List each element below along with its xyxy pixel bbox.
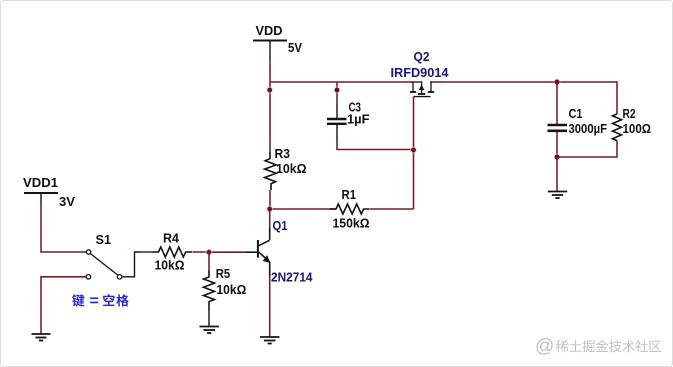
svg-text:R1: R1: [342, 188, 357, 202]
wire R2 bottom to C1 node: [557, 141, 617, 157]
svg-text:Q2: Q2: [414, 50, 430, 64]
wire S1 pole up to R4: [122, 252, 140, 277]
node junction dot C3 top: [333, 86, 340, 93]
svg-text:VDD: VDD: [256, 24, 283, 38]
wire C1 bottom: [556, 132, 558, 157]
wire R3/Q1 node to R1: [270, 208, 336, 210]
wire S1 to R4: [140, 251, 152, 253]
ground Q1 emitter: [260, 337, 279, 344]
resistor R2 100 ohm: [613, 107, 652, 141]
capacitor C3 1uF: [327, 101, 370, 141]
resistor R5 10k: [204, 267, 247, 311]
wire C3 top lead: [336, 82, 338, 103]
node junction dot C1 bottom: [553, 153, 560, 160]
svg-text:R5: R5: [216, 267, 231, 281]
switch S1 SPDT: [86, 233, 122, 279]
ground VDD1 return: [32, 334, 51, 341]
wire VDD to Q2 source: [270, 81, 412, 83]
ground C1: [548, 192, 567, 199]
svg-text:150kΩ: 150kΩ: [333, 217, 370, 231]
svg-text:100Ω: 100Ω: [623, 122, 652, 136]
watermark: [535, 336, 661, 357]
wire R5 to ground: [208, 311, 210, 327]
svg-text:Q1: Q1: [273, 219, 288, 233]
capacitor C1 3000uF: [548, 107, 608, 136]
svg-text:R4: R4: [163, 232, 179, 246]
svg-text:IRFD9014: IRFD9014: [391, 66, 449, 80]
wire Q1 collector: [269, 209, 271, 228]
node junction dot R4/R5/base: [205, 249, 212, 256]
wire VDD1 to S1: [41, 205, 86, 252]
svg-text:R2: R2: [623, 107, 636, 121]
ground R5: [200, 327, 219, 334]
wire Q1 emitter to ground: [269, 276, 271, 337]
wire S1 bottom throw to ground: [41, 277, 86, 334]
wire C3 bottom to Q2 gate: [337, 140, 414, 150]
svg-text:10kΩ: 10kΩ: [276, 162, 307, 176]
wire R4 to Q1 base node: [193, 251, 209, 253]
svg-text:2N2714: 2N2714: [271, 271, 313, 285]
power symbol VDD1 3V: [23, 176, 76, 209]
node junction dot gate/C3: [410, 146, 417, 153]
svg-text:S1: S1: [96, 233, 112, 247]
svg-text:@: @: [535, 336, 554, 357]
node junction dot on VDD wire: [266, 86, 273, 93]
resistor R3 10k: [265, 147, 307, 190]
wire Q2 drain to C1/R2: [436, 81, 617, 83]
wire VDD down to R3: [269, 60, 271, 152]
node junction dot C1 top: [553, 78, 560, 85]
svg-text:3V: 3V: [59, 195, 76, 209]
svg-text:3000µF: 3000µF: [569, 122, 608, 136]
svg-text:VDD1: VDD1: [23, 176, 58, 190]
svg-text:C1: C1: [569, 107, 583, 121]
svg-text:1µF: 1µF: [347, 113, 370, 127]
resistor R1 150k: [330, 188, 370, 231]
label key = space hint: [72, 294, 129, 306]
svg-text:10kΩ: 10kΩ: [155, 259, 185, 273]
wire R3 bottom: [269, 190, 271, 209]
transistor Q2 IRFD9014 p-MOSFET: [391, 50, 449, 97]
svg-text:5V: 5V: [288, 41, 303, 55]
node junction dot R3/R1/Q1: [266, 205, 273, 212]
wire node to Q1 base: [209, 251, 246, 253]
wire top to R2: [616, 81, 618, 114]
svg-text:10kΩ: 10kΩ: [216, 283, 246, 297]
wire C1 top lead: [556, 82, 558, 124]
resistor R4 10k: [152, 232, 192, 273]
transistor Q1 2N2714 NPN: [246, 219, 313, 285]
svg-text:R3: R3: [275, 147, 291, 161]
wire node down to R5: [208, 252, 210, 270]
wire R1 to gate wire: [370, 208, 414, 210]
wire C1 to ground: [556, 157, 558, 191]
wire Q2 gate down to R1: [413, 97, 415, 209]
power symbol VDD 5V: [253, 24, 303, 60]
